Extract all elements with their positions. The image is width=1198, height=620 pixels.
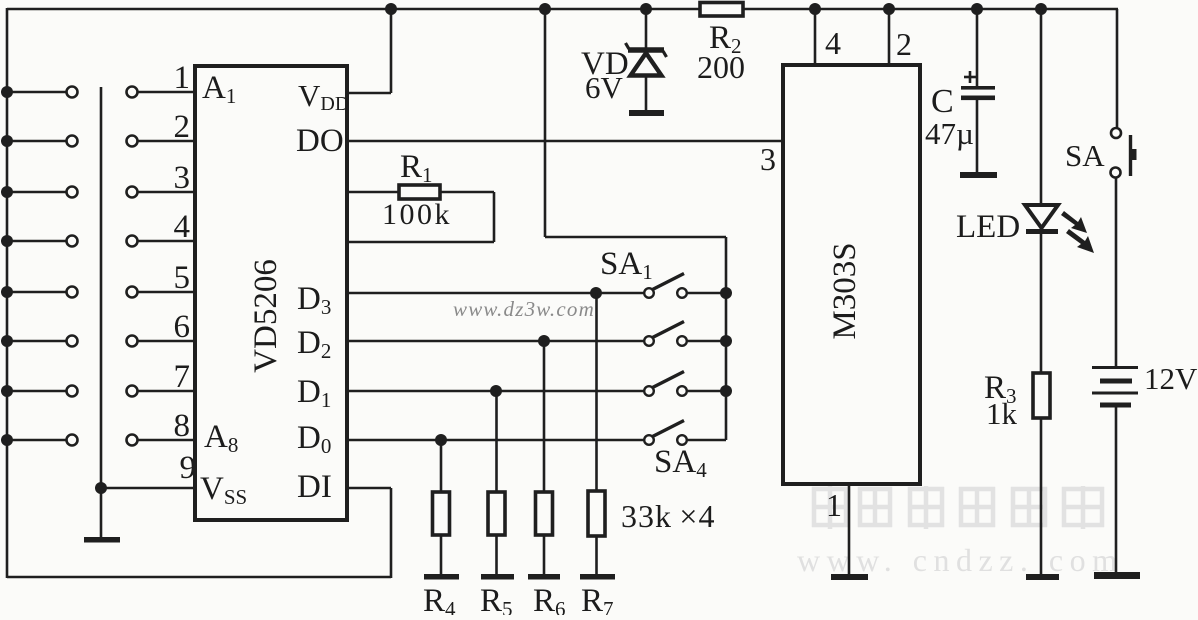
svg-text:M303S: M303S — [827, 242, 863, 339]
connector contact row3 right — [127, 187, 138, 198]
node LED on rail — [1035, 3, 1047, 15]
wire SA to battery — [1115, 178, 1118, 367]
wire R3 to ground — [1040, 418, 1043, 574]
wire R4 lower — [440, 535, 443, 576]
wire row7 right — [138, 390, 197, 393]
wire C bottom — [976, 100, 979, 173]
svg-text:7: 7 — [174, 359, 191, 395]
svg-text:4: 4 — [174, 209, 191, 245]
wire R1 riser down — [493, 192, 496, 242]
wire D0 — [347, 439, 644, 442]
wire R6 lower — [543, 535, 546, 576]
switch SA2 — [644, 322, 726, 346]
connector contact row7 left — [67, 386, 78, 397]
svg-text:8: 8 — [174, 408, 191, 444]
wire VDD pin to riser — [347, 92, 391, 95]
svg-text:3: 3 — [174, 160, 191, 196]
node M303S pin4 on rail — [809, 3, 821, 15]
wire LED to R3 — [1040, 233, 1043, 373]
IC U2 M303S — [783, 65, 920, 484]
LED emission arrows — [1061, 211, 1094, 253]
resistor R5 body — [488, 492, 505, 535]
wire LED top — [1040, 9, 1043, 206]
wire row3 right — [138, 191, 197, 194]
svg-text:SA: SA — [1065, 138, 1105, 173]
wire D2 — [347, 340, 644, 343]
ground battery — [1094, 572, 1140, 579]
connector contact row2 left — [67, 136, 78, 147]
wire pin9 VSS — [101, 487, 196, 490]
wire battery to ground — [1115, 405, 1118, 572]
node D3 tap R7 — [590, 287, 602, 299]
svg-text:LED: LED — [956, 209, 1020, 245]
resistor R7 body — [588, 491, 605, 536]
wire R4 upper — [440, 440, 443, 492]
ground R7 — [580, 574, 615, 580]
node VDD on top rail — [385, 3, 397, 15]
wire switch common bus — [725, 237, 728, 440]
wire common middle vertical — [100, 87, 103, 537]
wire D3 — [347, 292, 644, 295]
node row4 junction on left rail — [1, 235, 13, 247]
wire zener top — [645, 9, 648, 48]
capacitor C plus sign — [964, 71, 976, 83]
node row3 junction on left rail — [1, 186, 13, 198]
pushbutton SA — [1111, 128, 1137, 178]
svg-text:2: 2 — [896, 26, 912, 62]
wire R6 upper — [543, 341, 546, 492]
svg-text:100k: 100k — [382, 198, 452, 231]
wire VDD riser — [390, 9, 393, 93]
connector contact row2 right — [127, 136, 138, 147]
wire D1 — [347, 390, 644, 393]
connector contact row3 left — [67, 187, 78, 198]
svg-text:6: 6 — [174, 309, 191, 345]
node row8 junction on left rail — [1, 434, 13, 446]
connector contact row8 right — [127, 435, 138, 446]
connector contact row1 right — [127, 87, 138, 98]
wire row6 left — [7, 340, 67, 343]
node switch-feed on top rail — [539, 3, 551, 15]
wire row2 left — [7, 140, 67, 143]
svg-text:www.dz3w.com: www.dz3w.com — [453, 297, 595, 321]
node zener on top rail — [640, 3, 652, 15]
node SA1 on bus — [720, 287, 732, 299]
svg-text:3: 3 — [760, 141, 776, 177]
connector contact row5 right — [127, 287, 138, 298]
wire row7 left — [7, 390, 67, 393]
ground R4 — [424, 574, 459, 580]
node D2 tap R6 — [538, 335, 550, 347]
switch SA4 — [644, 421, 726, 445]
wire R1 return to IC — [347, 241, 494, 244]
wire R5 lower — [495, 535, 498, 576]
wire row1 left — [7, 91, 67, 94]
wire osc pin to R1 — [347, 191, 399, 194]
resistor R1 — [399, 185, 440, 199]
svg-text:4: 4 — [825, 25, 841, 61]
switch SA1 — [644, 274, 726, 298]
svg-text:5: 5 — [174, 260, 191, 296]
wire pin4 riser — [814, 9, 817, 66]
ground R6 — [528, 574, 560, 580]
ground R5 — [481, 574, 514, 580]
svg-text:33k ×4: 33k ×4 — [621, 498, 715, 534]
wire top rail left segment — [7, 8, 700, 11]
wire row3 left — [7, 191, 67, 194]
wire row1 right — [138, 91, 197, 94]
wire zener bottom — [645, 76, 648, 111]
node row5 junction on left rail — [1, 286, 13, 298]
watermark CJK site name — [814, 486, 1102, 529]
node M303S pin2 on rail — [883, 3, 895, 15]
wire DI to IC — [347, 487, 391, 490]
wire row8 left — [7, 439, 67, 442]
svg-text:1: 1 — [826, 487, 842, 523]
node SA2 on bus — [720, 335, 732, 347]
ground zener VD — [629, 110, 664, 116]
wire M303S pin1 — [848, 484, 851, 575]
ground common middle — [84, 537, 120, 543]
resistor R4 body — [433, 492, 450, 535]
switch SA3 — [644, 372, 726, 396]
node D0 tap R4 — [435, 434, 447, 446]
wire row4 left — [7, 240, 67, 243]
ground R3 — [1026, 574, 1059, 580]
svg-text:DI: DI — [297, 469, 332, 505]
wire DI riser — [390, 488, 393, 578]
wire SA riser from rail — [1116, 9, 1119, 128]
connector contact row7 right — [127, 386, 138, 397]
wire top rail right segment — [743, 8, 1118, 11]
wire R7 lower — [595, 536, 598, 576]
wire row5 right — [138, 291, 197, 294]
wire row2 right — [138, 140, 197, 143]
resistor R6 body — [536, 492, 553, 535]
svg-text:1k: 1k — [986, 396, 1018, 431]
wire row4 right — [138, 240, 197, 243]
node row7 junction on left rail — [1, 385, 13, 397]
resistor R3 body — [1033, 373, 1050, 418]
capacitor C plates — [961, 86, 995, 100]
connector contact row6 left — [67, 336, 78, 347]
svg-text:2: 2 — [174, 109, 191, 145]
svg-text:47µ: 47µ — [925, 116, 974, 151]
resistor R2 — [700, 3, 743, 17]
svg-text:200: 200 — [697, 49, 745, 85]
wire left rail — [6, 8, 9, 578]
node SA3 on bus — [720, 385, 732, 397]
node row1 junction on left rail — [1, 86, 13, 98]
svg-text:12V: 12V — [1144, 361, 1198, 396]
ground capacitor C — [960, 172, 997, 178]
battery GB 12V — [1092, 368, 1138, 406]
wire C top — [976, 9, 979, 86]
LED D1 — [1025, 205, 1058, 234]
node D1 tap R5 — [490, 385, 502, 397]
connector contact row4 right — [127, 236, 138, 247]
wire bottom return — [7, 576, 391, 579]
node VSS junction on middle vertical — [95, 482, 107, 494]
wire row6 right — [138, 340, 197, 343]
wire R7 upper — [595, 293, 598, 491]
IC U1 VD5206 — [195, 66, 347, 520]
wire R1 right — [440, 191, 494, 194]
connector contact row1 left — [67, 87, 78, 98]
wire switch-feed riser — [544, 9, 547, 237]
wire R5 upper — [495, 391, 498, 492]
connector contact row4 left — [67, 236, 78, 247]
wire DO to M303S pin3 — [347, 140, 785, 143]
connector contact row5 left — [67, 287, 78, 298]
zener diode VD — [626, 43, 667, 76]
wire switch-feed horizontal — [545, 236, 726, 239]
connector contact row8 left — [67, 435, 78, 446]
connector contact row6 right — [127, 336, 138, 347]
wire pin2 riser — [888, 9, 891, 66]
node row6 junction on left rail — [1, 335, 13, 347]
svg-text:www. cndzz. com: www. cndzz. com — [797, 542, 1123, 578]
wire row5 left — [7, 291, 67, 294]
svg-text:VD5206: VD5206 — [248, 259, 284, 373]
svg-text:DO: DO — [296, 123, 344, 159]
svg-text:1: 1 — [174, 60, 191, 96]
svg-text:6V: 6V — [585, 70, 624, 105]
svg-text:C: C — [931, 83, 954, 120]
ground M303S pin1 — [831, 574, 868, 580]
wire row8 right — [138, 439, 197, 442]
node row2 junction on left rail — [1, 135, 13, 147]
node capacitor C on rail — [971, 3, 983, 15]
